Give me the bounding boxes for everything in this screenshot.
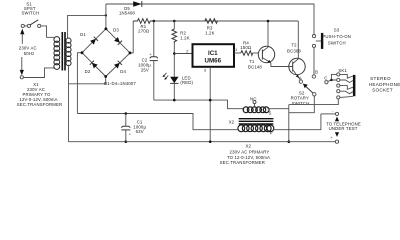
resistor R2 1.2K (172, 21, 190, 43)
wire bridge right vertex to R1 (130, 21, 133, 53)
svg-text:UM66: UM66 (205, 57, 222, 64)
svg-text:SEC.TRANSFORMER: SEC.TRANSFORMER (17, 102, 62, 107)
svg-text:1.2K: 1.2K (180, 36, 189, 41)
label X2 230V AC PRIMARY TO 12-0-12V, 500mA SEC.TRANSFORMER (220, 144, 270, 166)
svg-text:1: 1 (235, 47, 237, 52)
node LED / IC pin2 (173, 52, 176, 55)
svg-text:IC1: IC1 (208, 50, 218, 57)
transformer X1 primary winding (54, 37, 60, 70)
svg-text:X2: X2 (229, 120, 235, 125)
resistor R3 1.2K (205, 19, 218, 36)
svg-text:150Ω: 150Ω (240, 45, 251, 50)
svg-text:SWITCH: SWITCH (21, 10, 39, 15)
svg-text:ROTARY: ROTARY (291, 96, 309, 101)
svg-text:X2: X2 (246, 144, 252, 149)
AC input lower arrow (20, 57, 24, 79)
diode D3 (113, 27, 122, 45)
svg-text:SOCKET: SOCKET (372, 88, 393, 93)
rotary switch S2 (291, 70, 328, 106)
resistor R1 270ohm (133, 19, 154, 34)
wire S3 to rotary contact B (313, 48, 315, 75)
wire S1 to X1 primary top (41, 26, 54, 37)
svg-text:25V: 25V (141, 68, 149, 73)
bottom rail (69, 141, 336, 143)
svg-text:C: C (324, 75, 327, 80)
svg-text:D2: D2 (85, 69, 91, 74)
positive rail (154, 20, 298, 22)
switch S1 (21, 20, 41, 28)
switch S3 PUSH-TO-ON (312, 27, 351, 49)
wire IC1 pin3 to ground and bottom rail (209, 67, 211, 142)
svg-text:S2: S2 (299, 90, 305, 95)
wire IC1 pin1 to R4 (234, 52, 241, 54)
svg-text:T1: T1 (249, 59, 255, 64)
svg-text:SWITCH: SWITCH (292, 101, 310, 106)
svg-text:SEC.TRANSFORMER: SEC.TRANSFORMER (220, 160, 265, 165)
capacitor C1 1000u 63V (121, 112, 146, 143)
transistor T2 BC368 (287, 42, 305, 80)
wire riser top rail to bridge top vertex (105, 4, 107, 29)
svg-text:50Hz: 50Hz (24, 51, 35, 56)
wire C contact to SK1 (328, 80, 332, 81)
svg-text:270Ω: 270Ω (138, 28, 149, 33)
svg-text:BC368: BC368 (287, 48, 301, 53)
AC input upper arrow (20, 29, 24, 44)
svg-text:D1: D1 (80, 32, 86, 37)
diode D2 (85, 61, 98, 75)
node secondary-top / bridge-top junction (105, 14, 107, 16)
svg-text:1N5408: 1N5408 (119, 11, 135, 16)
diode D1 (80, 32, 98, 44)
wire junction column (288, 105, 290, 142)
wire T2 collector to rail (297, 21, 299, 59)
label STEREO HEADPHONE SOCKET (369, 76, 400, 92)
svg-text:T2: T2 (291, 42, 297, 47)
transformer X1 core (62, 32, 65, 71)
svg-text:PUSH-TO-ON: PUSH-TO-ON (322, 34, 351, 39)
wire T1 collector to rail (267, 21, 269, 47)
wire T1 emitter to T2 base (271, 63, 293, 67)
svg-text:(RED): (RED) (180, 80, 193, 85)
svg-text:SK1: SK1 (338, 68, 347, 73)
svg-text:S: S (268, 110, 271, 115)
svg-text:D4: D4 (120, 69, 126, 74)
label 230V AC 50Hz (19, 45, 37, 56)
svg-text:2: 2 (186, 48, 188, 53)
wire X2 primary P to output (274, 114, 321, 130)
wire bridge left vertex to minus rail (77, 53, 82, 114)
svg-text:1.2K: 1.2K (205, 30, 214, 35)
output terminal minus (321, 109, 339, 122)
transformer X2 (229, 97, 274, 136)
svg-text:S3: S3 (334, 27, 340, 32)
headphone socket SK1 (330, 68, 355, 99)
label X1 230V AC PRIMARY TO 12V-0-12V, 500mA SEC.TRANSFORMER (17, 82, 62, 107)
capacitor C2 1000u 25V (138, 21, 158, 100)
wire lower AC terminal to X1 primary bottom (24, 68, 55, 78)
svg-text:SWITCH: SWITCH (328, 41, 346, 46)
svg-text:STEREO: STEREO (370, 76, 391, 81)
wire node to IC1 pin 2 (174, 53, 192, 55)
wire X2 secondary S to junction column (268, 108, 289, 110)
label S1 SPST SWITCH (21, 1, 39, 15)
svg-text:P: P (270, 131, 273, 136)
bridge diamond edges (81, 27, 132, 78)
transformer X1 secondary winding (66, 38, 71, 66)
svg-text:3: 3 (204, 67, 206, 72)
svg-text:230V AC: 230V AC (19, 45, 37, 50)
diode D5 1N5408 (119, 1, 142, 16)
minus rail to X2 primary (77, 114, 237, 130)
label TO TELEPHONE UNDER TEST (326, 122, 361, 131)
LED (RED) (162, 73, 193, 100)
svg-text:B: B (315, 70, 318, 75)
output terminal plus (330, 132, 339, 143)
diode D4 (114, 61, 126, 74)
resistor R4 150ohm (240, 41, 258, 56)
wire R2 to LED node (173, 43, 175, 77)
svg-text:BC148: BC148 (248, 64, 262, 69)
bridge: wire bottom vertex to secondary bottom (69, 77, 106, 84)
wire rotary pivot down and left (289, 96, 315, 113)
IC1 UM66 (193, 44, 238, 72)
svg-text:D1-D4=1N4007: D1-D4=1N4007 (104, 81, 136, 86)
svg-text:HEADPHONE: HEADPHONE (369, 82, 400, 87)
ground rail from C2 (154, 100, 244, 109)
node R1/C2 (153, 20, 156, 23)
svg-text:D3: D3 (113, 27, 119, 32)
wire secondary bottom down to bottom rail (68, 65, 70, 142)
wire top rail with D5 to S3 (106, 4, 314, 34)
node R2 top (173, 20, 176, 23)
transistor T1 BC148 (248, 46, 275, 69)
wire X1 secondary top to bridge (68, 15, 106, 38)
svg-text:A: A (299, 75, 302, 80)
wire SK1 bottom contact to X2 secondary (289, 99, 339, 104)
svg-text:UNDER TEST: UNDER TEST (329, 126, 358, 131)
svg-text:63V: 63V (136, 129, 144, 134)
